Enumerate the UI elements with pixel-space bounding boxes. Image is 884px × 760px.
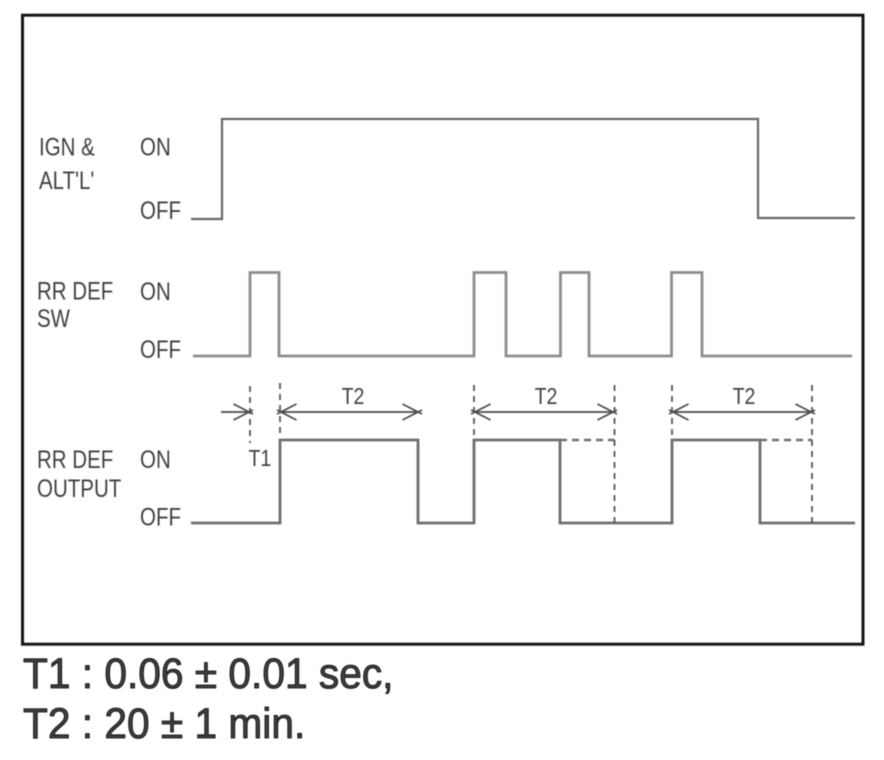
- dimension arrow T1: [221, 404, 253, 420]
- wire RR DEF SW waveform: [193, 273, 852, 357]
- svg-text:T1: T1: [249, 446, 272, 472]
- svg-text:SW: SW: [37, 304, 70, 332]
- svg-text:RR DEF: RR DEF: [37, 277, 113, 305]
- svg-text:T2: T2: [535, 384, 558, 410]
- node dashed vertical at T2 end 3: [811, 385, 813, 524]
- svg-text:T1 : 0.06 ± 0.01 sec,: T1 : 0.06 ± 0.01 sec,: [23, 649, 393, 697]
- svg-text:OFF: OFF: [140, 335, 181, 363]
- node dashed vertical at T2 end 2: [614, 385, 616, 524]
- node dashed vertical at output rise 1: [279, 383, 281, 436]
- svg-text:RR DEF: RR DEF: [37, 445, 113, 473]
- svg-text:T2: T2: [733, 384, 756, 410]
- svg-text:IGN &: IGN &: [39, 133, 95, 161]
- wire dashed ON extension pulse2: [560, 439, 615, 441]
- label RR DEF OUTPUT: [37, 445, 121, 502]
- svg-text:OUTPUT: OUTPUT: [37, 474, 121, 502]
- wire IGN waveform: [191, 119, 855, 219]
- wire RR DEF OUTPUT waveform: [191, 440, 855, 523]
- svg-text:T2: T2: [342, 384, 365, 410]
- label IGN & ALT'L': [39, 133, 95, 195]
- svg-text:OFF: OFF: [140, 196, 181, 224]
- node dashed vertical at output rise 3: [671, 385, 673, 437]
- svg-text:ALT'L': ALT'L': [39, 166, 94, 194]
- svg-text:ON: ON: [140, 133, 171, 161]
- dimension arrow T2 third: [669, 404, 815, 420]
- svg-text:ON: ON: [140, 277, 171, 305]
- label RR DEF SW: [37, 277, 113, 333]
- dimension arrow T2 first: [277, 404, 422, 420]
- dimension arrow T2 second: [471, 404, 617, 420]
- node dashed vertical at output rise 2: [473, 385, 475, 437]
- node dashed vertical at SW press 1: [249, 386, 251, 443]
- wire dashed ON extension pulse3: [760, 439, 812, 441]
- svg-text:T2 : 20 ± 1 min.: T2 : 20 ± 1 min.: [23, 699, 305, 747]
- svg-text:ON: ON: [140, 445, 171, 473]
- svg-text:OFF: OFF: [140, 503, 181, 531]
